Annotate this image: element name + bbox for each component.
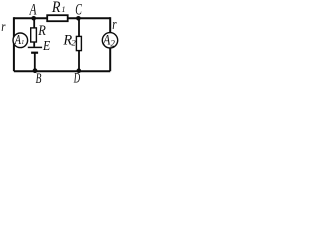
node B dot [33, 68, 38, 73]
svg-text:D: D [73, 71, 80, 83]
wire battery to node B [34, 53, 36, 71]
svg-text:A: A [102, 33, 110, 49]
wire node A down through R to battery [33, 18, 35, 47]
resistor R (box) [31, 28, 37, 42]
svg-text:C: C [75, 2, 82, 19]
svg-text:A: A [29, 2, 37, 19]
resistor R2 (box) [76, 36, 81, 50]
svg-text:B: B [36, 71, 42, 83]
svg-text:E: E [42, 39, 50, 54]
svg-text:R: R [37, 23, 46, 39]
svg-text:1: 1 [21, 40, 24, 46]
svg-text:r: r [1, 19, 6, 34]
resistor R1 [47, 15, 67, 21]
node C dot [76, 16, 81, 21]
wire bottom rail [14, 70, 110, 72]
node D dot [77, 68, 82, 73]
wire node C down through R2 to node D [78, 18, 80, 71]
battery E short thick plate [31, 52, 38, 54]
ammeter A1 circle [13, 33, 28, 48]
battery E long plate [28, 46, 42, 48]
wire top rail [14, 17, 110, 19]
svg-text:2: 2 [110, 38, 115, 48]
ammeter A2 circle [102, 33, 117, 48]
node A dot [31, 16, 36, 21]
svg-text:R: R [51, 0, 61, 16]
svg-text:r: r [112, 17, 116, 33]
wire left branch (through A1) [13, 17, 15, 71]
svg-text:A: A [14, 33, 21, 48]
wire right branch (through A2) [109, 17, 111, 71]
svg-text:1: 1 [62, 5, 66, 14]
